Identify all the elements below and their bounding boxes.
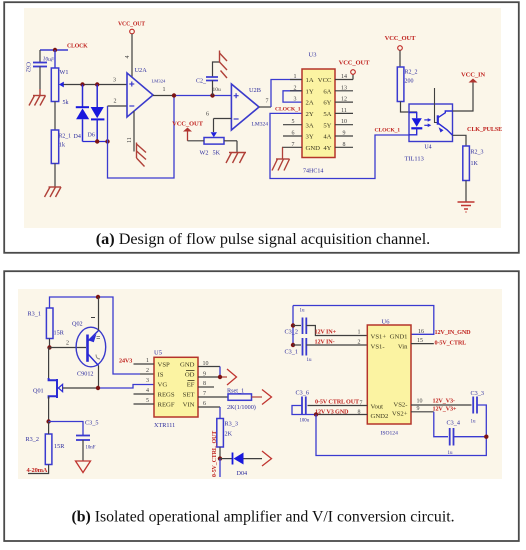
svg-text:7: 7	[266, 99, 269, 105]
wire Q02 base	[50, 341, 87, 348]
svg-text:XTR111: XTR111	[154, 422, 175, 429]
svg-text:1: 1	[146, 358, 149, 364]
wire U6 pin 8 row	[315, 398, 367, 415]
svg-text:11: 11	[127, 137, 133, 143]
svg-text:1: 1	[163, 87, 166, 93]
port arrow (D04)	[262, 451, 272, 466]
svg-text:15R: 15R	[54, 330, 65, 337]
svg-text:TIL113: TIL113	[405, 156, 424, 163]
svg-text:Vout: Vout	[371, 404, 384, 411]
svg-text:1k: 1k	[59, 143, 65, 149]
svg-text:10u: 10u	[213, 87, 222, 93]
U5 right pin stubs	[198, 367, 228, 408]
diode D6	[88, 85, 105, 142]
svg-text:Q02: Q02	[72, 321, 83, 328]
svg-text:VCC_OUT: VCC_OUT	[339, 60, 371, 67]
svg-text:C3_1: C3_1	[285, 349, 298, 356]
svg-text:CLOCK_1: CLOCK_1	[375, 128, 401, 134]
wire feedback loop U2A	[108, 96, 175, 179]
svg-text:10: 10	[341, 119, 347, 125]
svg-text:12V IN-: 12V IN-	[315, 339, 335, 346]
svg-text:4: 4	[125, 56, 131, 59]
svg-text:SET: SET	[183, 392, 195, 399]
svg-text:7: 7	[360, 400, 363, 406]
svg-text:2K: 2K	[225, 431, 233, 438]
svg-text:C3_5: C3_5	[85, 420, 98, 427]
svg-text:2: 2	[146, 368, 149, 374]
svg-text:Rset_1: Rset_1	[227, 388, 244, 395]
svg-text:16: 16	[418, 329, 424, 335]
IC U5 XTR111	[154, 350, 198, 430]
svg-text:R2_2: R2_2	[405, 70, 418, 76]
svg-text:5A: 5A	[323, 111, 331, 118]
op-amp U2A	[127, 67, 166, 117]
wire CLOCK_1 net to optocoupler	[270, 113, 409, 178]
svg-text:1u: 1u	[448, 451, 454, 456]
svg-text:C2_: C2_	[196, 79, 207, 85]
wire top rail panel b	[50, 297, 155, 374]
power port VCC_IN	[453, 72, 486, 112]
svg-text:VS2+: VS2+	[392, 410, 408, 417]
svg-text:12V_V3+: 12V_V3+	[433, 406, 457, 413]
U3 left pin numbers	[292, 74, 297, 148]
svg-text:3A: 3A	[306, 122, 314, 129]
svg-text:R2_3: R2_3	[471, 150, 484, 156]
svg-text:U3: U3	[309, 52, 317, 59]
power symbol (above C2_)	[220, 51, 228, 79]
capacitor C3_5	[49, 420, 99, 462]
svg-text:C62: C62	[25, 62, 31, 72]
svg-text:100u: 100u	[300, 419, 310, 424]
svg-text:C3_6: C3_6	[296, 390, 309, 397]
node U5 pin9 junction	[218, 375, 222, 379]
svg-text:IS: IS	[158, 372, 164, 379]
svg-text:EF: EF	[187, 382, 195, 389]
optocoupler U4 TIL113	[405, 88, 453, 163]
node diode junctions	[95, 139, 110, 143]
wire U3 pin2-pin3 loop	[283, 91, 302, 102]
svg-text:VS1-: VS1-	[371, 343, 385, 350]
svg-text:1A: 1A	[306, 77, 314, 84]
ground (below R2_1)	[45, 187, 62, 197]
svg-text:GND1: GND1	[390, 333, 408, 340]
svg-text:6: 6	[292, 131, 295, 137]
wire U2B pin 6	[206, 112, 231, 133]
port arrow (U5 GND/OD)	[227, 369, 237, 385]
svg-text:REGF: REGF	[158, 402, 175, 409]
svg-text:6: 6	[203, 401, 206, 407]
wire U2B output	[259, 99, 301, 113]
svg-text:W2: W2	[200, 150, 209, 157]
svg-text:200: 200	[405, 79, 414, 85]
power symbol (below pin 11)	[137, 143, 147, 167]
node top rail junction	[96, 295, 100, 299]
potentiometer W2	[200, 132, 238, 156]
U6 pin 15 stub	[411, 329, 434, 344]
IC U3 74HC14	[302, 52, 335, 175]
svg-text:12V IN+: 12V IN+	[315, 329, 337, 336]
svg-text:7: 7	[292, 142, 295, 148]
svg-text:1u: 1u	[307, 358, 313, 363]
svg-text:8: 8	[203, 381, 206, 387]
wire U6 top rail	[293, 306, 434, 335]
svg-text:VCC_IN: VCC_IN	[461, 72, 485, 79]
resistor R2_1	[51, 130, 71, 187]
node U6 pin 8 junction	[314, 412, 318, 416]
transistor Q01	[33, 348, 63, 422]
wire below D04 node	[219, 459, 221, 477]
ground (U3 pin 7)	[272, 147, 290, 170]
svg-text:1: 1	[294, 74, 297, 80]
node CLOCK junction	[53, 48, 57, 52]
svg-text:3: 3	[113, 78, 116, 84]
op-amp U2B	[231, 84, 268, 130]
svg-text:8: 8	[343, 142, 346, 148]
wire diode bottoms	[83, 141, 108, 143]
analog ground (below C3_5)	[76, 461, 91, 473]
resistor R3_1	[28, 308, 65, 348]
capacitor C3_6	[292, 390, 367, 424]
wire U5 VIN to R3_3	[219, 407, 221, 419]
node C3_5 junction	[46, 419, 50, 423]
diode D4	[74, 85, 90, 142]
U3 right pin numbers	[341, 74, 347, 148]
svg-text:(a) Design of flow pulse signa: (a) Design of flow pulse signal acquisit…	[96, 230, 430, 248]
svg-text:VS1+: VS1+	[371, 333, 387, 340]
svg-text:15R: 15R	[54, 443, 65, 450]
node C3_1 junction	[291, 343, 295, 347]
svg-text:5k: 5k	[63, 100, 69, 106]
svg-text:7: 7	[203, 391, 206, 397]
svg-text:VIN: VIN	[183, 402, 195, 409]
svg-text:10: 10	[417, 398, 423, 404]
wire U2A pin 11	[127, 111, 134, 152]
resistor Rset_1	[227, 388, 262, 412]
svg-text:10nF: 10nF	[86, 446, 96, 451]
svg-text:C3_4: C3_4	[447, 420, 460, 427]
svg-text:6: 6	[206, 112, 209, 118]
wire U6 bottom rail	[316, 415, 486, 456]
svg-text:VCC_OUT: VCC_OUT	[385, 35, 417, 42]
svg-text:12: 12	[341, 97, 347, 103]
svg-text:1u: 1u	[300, 309, 306, 314]
node C3_2 junction	[291, 323, 295, 327]
svg-text:2K(1/1000): 2K(1/1000)	[227, 404, 256, 411]
diode D04	[220, 453, 262, 478]
node output junctions	[172, 93, 215, 97]
svg-text:W1: W1	[60, 69, 69, 76]
svg-text:5Y: 5Y	[323, 122, 331, 129]
svg-text:11: 11	[341, 108, 347, 114]
panel (a) frame	[4, 2, 519, 253]
svg-text:13: 13	[341, 85, 347, 91]
node C3_3/C3_4 junction	[484, 435, 488, 439]
svg-text:U2A: U2A	[135, 67, 148, 74]
wire U6 left vertical	[292, 306, 294, 346]
power port VCC_OUT (U3 pin 14)	[339, 60, 371, 80]
svg-text:VCC_OUT: VCC_OUT	[118, 22, 145, 28]
svg-text:24V3: 24V3	[119, 358, 132, 365]
svg-text:GND: GND	[306, 145, 321, 152]
ground (right of W2)	[226, 153, 246, 164]
net label 4-20mA	[27, 467, 48, 474]
pin 4 label U2A	[125, 56, 131, 59]
svg-text:LM324: LM324	[252, 122, 269, 128]
svg-text:0-5V_CTRL: 0-5V_CTRL	[435, 340, 467, 347]
transistor Q02 C9012	[72, 297, 106, 388]
potentiometer W1	[51, 50, 68, 130]
node input junctions	[80, 82, 99, 86]
U3 left pin stubs	[282, 80, 302, 148]
svg-text:15: 15	[417, 338, 423, 344]
node R3_1 bottom junction	[47, 345, 51, 349]
earth ground (below R2_3)	[458, 202, 475, 212]
resistor R3_2	[26, 422, 66, 474]
svg-text:(b) Isolated operational ampli: (b) Isolated operational amplifier and V…	[71, 509, 454, 526]
svg-text:GND: GND	[180, 362, 195, 369]
svg-text:14: 14	[341, 74, 347, 80]
svg-text:12V_V3-: 12V_V3-	[433, 397, 455, 404]
svg-text:5K: 5K	[213, 150, 221, 157]
svg-text:2Y: 2Y	[306, 111, 314, 118]
svg-text:Q01: Q01	[33, 388, 44, 395]
svg-text:4: 4	[146, 388, 149, 394]
U5 left pin stubs	[134, 364, 155, 404]
wire Q01 gate to U5 pin 3	[63, 385, 155, 389]
svg-text:R3_3: R3_3	[225, 421, 238, 428]
svg-text:3: 3	[294, 97, 297, 103]
svg-text:5: 5	[146, 398, 149, 404]
port arrow (Rset_1)	[262, 390, 272, 405]
wire CLK_PULSE	[453, 126, 503, 146]
svg-text:CLK_PULSE: CLK_PULSE	[467, 126, 502, 133]
svg-text:1Y: 1Y	[306, 88, 314, 95]
svg-text:CLOCK: CLOCK	[67, 44, 88, 50]
resistor R2_2	[397, 67, 417, 112]
svg-text:CLOCK_1: CLOCK_1	[275, 107, 301, 113]
svg-text:9: 9	[203, 372, 206, 378]
capacitor C3_3	[471, 390, 487, 437]
power port VCC_OUT (above U2A)	[118, 22, 145, 78]
svg-text:2: 2	[114, 99, 117, 105]
svg-text:12V_IN_GND: 12V_IN_GND	[435, 329, 472, 336]
svg-text:9: 9	[417, 406, 420, 412]
svg-text:VS2-: VS2-	[393, 402, 407, 409]
svg-text:U4: U4	[424, 145, 431, 151]
svg-text:5: 5	[292, 119, 295, 125]
svg-text:VG: VG	[158, 382, 168, 389]
svg-text:3Y: 3Y	[306, 134, 314, 141]
svg-text:D6: D6	[88, 133, 95, 139]
resistor R2_3	[463, 146, 484, 202]
svg-text:U5: U5	[154, 350, 162, 357]
capacitor C3_4	[447, 420, 487, 457]
svg-text:VCC_OUT: VCC_OUT	[172, 121, 204, 128]
U5 left pin numbers	[146, 358, 149, 404]
panel (b) frame	[4, 271, 519, 541]
resistor R3_3	[217, 419, 238, 459]
U3 right pin stubs	[335, 80, 353, 148]
svg-text:C9012: C9012	[77, 371, 94, 378]
svg-text:4A: 4A	[323, 134, 331, 141]
svg-text:D4: D4	[74, 134, 81, 140]
capacitor C2_	[196, 62, 221, 96]
svg-text:R3_2: R3_2	[26, 436, 39, 443]
svg-text:6Y: 6Y	[323, 100, 331, 107]
U5 right pin numbers	[203, 361, 209, 407]
svg-text:0-5V CTRL OUT: 0-5V CTRL OUT	[315, 398, 360, 405]
svg-text:R3_1: R3_1	[28, 311, 41, 318]
svg-text:8: 8	[358, 410, 361, 416]
svg-text:3: 3	[146, 378, 149, 384]
capacitor C3_2	[285, 309, 368, 336]
svg-text:Vin: Vin	[398, 343, 408, 350]
wire CLOCK	[40, 44, 88, 51]
svg-text:1K: 1K	[471, 161, 479, 167]
caption (a)	[96, 230, 430, 248]
net label 24V3	[119, 358, 132, 365]
svg-text:4-20mA: 4-20mA	[27, 467, 48, 474]
svg-text:OD: OD	[185, 372, 195, 379]
wire U6 pin 9	[411, 406, 457, 437]
caption (b)	[71, 509, 454, 526]
wire U2A pin 2	[108, 99, 128, 107]
capacitor C3_1	[285, 338, 368, 363]
wire U5 GND/OD node	[220, 367, 227, 378]
svg-text:ISO124: ISO124	[381, 431, 399, 437]
svg-text:9: 9	[343, 131, 346, 137]
svg-text:C3_3: C3_3	[471, 390, 484, 397]
wire to U2A pin 3	[64, 78, 128, 85]
power port VCC_OUT (left of W2)	[172, 121, 204, 141]
svg-text:0-5V_CTRL_OUT: 0-5V_CTRL_OUT	[212, 431, 218, 477]
power port VCC_OUT (above R2_2)	[385, 35, 417, 67]
svg-text:6A: 6A	[323, 88, 331, 95]
svg-text:D04: D04	[237, 470, 248, 477]
svg-text:C3_2: C3_2	[285, 329, 298, 336]
IC U6 ISO124	[367, 319, 411, 437]
svg-text:2A: 2A	[306, 100, 314, 107]
svg-text:R2_1: R2_1	[59, 134, 72, 140]
svg-text:12V V3 GND: 12V V3 GND	[315, 409, 349, 416]
svg-text:U6: U6	[382, 319, 391, 326]
svg-text:1: 1	[358, 330, 361, 336]
svg-text:VSP: VSP	[158, 362, 171, 369]
wire U6 pin 10	[411, 397, 472, 405]
node Q01 gate junction	[96, 386, 100, 390]
svg-text:VCC: VCC	[318, 77, 332, 84]
svg-text:10: 10	[203, 361, 209, 367]
net label 0-5V_CTRL_OUT (rotated)	[212, 431, 218, 477]
wire U2A output	[153, 87, 231, 96]
net labels 12V IN	[315, 329, 361, 346]
ground (below C62)	[29, 89, 46, 106]
svg-text:LM324: LM324	[152, 79, 166, 84]
svg-text:REGS: REGS	[158, 392, 175, 399]
wire to U3 pin 1	[271, 80, 302, 108]
svg-text:4Y: 4Y	[323, 145, 331, 152]
svg-text:U2B: U2B	[249, 87, 261, 94]
svg-text:74HC14: 74HC14	[303, 169, 323, 175]
svg-text:GND2: GND2	[371, 413, 389, 420]
net labels U6 right top	[435, 329, 472, 347]
capacitor C62	[25, 50, 55, 89]
svg-text:1u: 1u	[471, 420, 477, 425]
svg-text:2: 2	[358, 340, 361, 346]
svg-text:2: 2	[66, 341, 69, 347]
svg-text:2: 2	[294, 85, 297, 91]
node D04 junction	[218, 456, 222, 460]
